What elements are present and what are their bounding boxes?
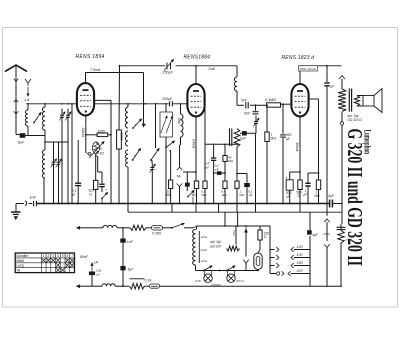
capacitor 0.1uF x213.6 <box>213 144 215 157</box>
svg-text:G 320 II und GD 320 II: G 320 II und GD 320 II <box>343 129 367 267</box>
switch S5 <box>132 159 134 161</box>
svg-text:5nF: 5nF <box>241 99 248 103</box>
wire ground bus right end <box>332 203 342 205</box>
switch S mains <box>171 227 173 229</box>
svg-text:0,2A: 0,2A <box>145 279 153 283</box>
wire L2 bottom <box>33 135 45 137</box>
fuse 0.35A <box>152 226 163 230</box>
ballast tube <box>259 240 261 250</box>
resistor 0.3MOhm <box>267 103 281 107</box>
resistor 40MOhm x225 <box>224 144 226 155</box>
transformer core line <box>198 231 200 263</box>
capacitor 500uF <box>282 104 284 134</box>
svg-text:24mA: 24mA <box>192 138 196 149</box>
svg-text:MΩ: MΩ <box>271 137 277 141</box>
field choke core bars <box>337 226 346 228</box>
wire x172 interbus <box>171 204 173 213</box>
wire vertical x111 <box>110 100 112 203</box>
wire V3 cathode <box>299 117 301 181</box>
hook terminal <box>340 122 343 125</box>
aux antenna socket Y <box>25 79 31 83</box>
resistor R screen feed <box>316 180 320 190</box>
resistor 120 Ohm <box>95 153 97 180</box>
wire x218 drop <box>218 204 220 213</box>
coil L5 <box>126 131 129 146</box>
svg-text:auf. Spl.: auf. Spl. <box>210 240 222 244</box>
svg-text:100a: 100a <box>201 235 208 239</box>
wire y144.3 <box>205 143 237 145</box>
wire antenna feeder <box>15 66 17 135</box>
switch lamp 2 <box>226 270 228 272</box>
tube V2 RENS1884 <box>187 84 204 116</box>
wire second bus y212 <box>127 204 129 213</box>
coil L6 <box>126 150 129 167</box>
wire V2 anode <box>195 66 197 84</box>
speaker cone <box>374 89 382 113</box>
wire x255 interbus <box>255 204 257 213</box>
svg-text:220a: 220a <box>201 248 208 252</box>
wire mains line 2 <box>88 285 102 287</box>
switch S6 <box>150 159 152 161</box>
wire ground bus main <box>36 203 329 205</box>
transformer core bars <box>348 89 350 112</box>
trimmer C4 <box>57 161 61 163</box>
wire riser x119.5 <box>119 66 121 73</box>
junction dot V3 bottom <box>299 111 301 113</box>
switch S1 <box>33 122 35 124</box>
svg-text:0,35A: 0,35A <box>152 231 162 235</box>
svg-text:MΩ: MΩ <box>166 193 172 197</box>
power transformer primary winding <box>196 226 198 230</box>
resistor 0.4MOhm x225 lower <box>223 181 227 189</box>
svg-text:1mA: 1mA <box>208 67 216 71</box>
svg-text:LA: LA <box>25 97 30 102</box>
wire lamp row <box>196 270 258 272</box>
wire V2 cathode down <box>195 117 197 182</box>
svg-text:5: 5 <box>100 147 102 151</box>
svg-text:150: 150 <box>297 261 303 265</box>
svg-text:MΩ: MΩ <box>228 159 234 163</box>
wire stub 308-318 y173 <box>308 172 319 174</box>
wire x255.5 lower <box>255 133 257 203</box>
wire V1 grid lead right <box>94 99 111 101</box>
resistor R 10MOhm grid <box>169 180 173 189</box>
wire transformer bottom <box>195 265 197 271</box>
svg-text:Mittel: Mittel <box>16 259 24 263</box>
wire mains bus to transformer <box>194 226 197 228</box>
wire x196 interbus <box>195 204 197 213</box>
svg-text:130: 130 <box>297 253 303 257</box>
svg-text:-7936: -7936 <box>322 232 330 236</box>
svg-text:7,5mA: 7,5mA <box>90 68 101 72</box>
wire vertical x62 lower <box>61 142 63 203</box>
wire vertical x68 lower <box>67 142 69 203</box>
svg-text:1nF: 1nF <box>127 240 134 244</box>
svg-text:36mA: 36mA <box>295 142 299 152</box>
resistor R 0.1MOhm x205 <box>204 144 206 181</box>
wire grid bus <box>26 103 169 105</box>
heater resistor zigzag <box>235 226 237 245</box>
resistor 1MOhm x237 <box>235 181 239 188</box>
wire AVC line to V3 grid <box>237 104 244 106</box>
wire x152 trimmer <box>151 174 153 177</box>
svg-text:2µF: 2µF <box>327 194 335 198</box>
plug chevron x327 upper <box>324 219 330 222</box>
wire junction x255.5 down <box>255 104 257 106</box>
capacitor 2uF top right <box>326 66 328 82</box>
resistor R 1MOhm V2 cathode <box>194 181 198 189</box>
svg-text:4: 4 <box>57 254 59 258</box>
junction dot lamps <box>219 270 221 272</box>
svg-text:220: 220 <box>296 269 303 273</box>
trimmer C1 <box>60 114 64 116</box>
svg-text:5µF: 5µF <box>128 268 135 272</box>
svg-text:RENS 1894: RENS 1894 <box>76 54 105 60</box>
resistor mains zigzag 1 <box>130 225 146 230</box>
capacitor 6uF antenna series <box>20 133 26 138</box>
svg-text:MΩ: MΩ <box>240 193 246 197</box>
voltage selector wiper arrow <box>245 230 247 241</box>
svg-text:GD 320 D: GD 320 D <box>348 118 363 122</box>
trimmer C8 in box <box>166 116 172 133</box>
resistor 1MOhm <box>266 105 268 132</box>
resistor mains zigzag 2 with bar <box>130 278 145 280</box>
capacitor 5nF shunt <box>253 111 259 113</box>
svg-text:MΩ: MΩ <box>202 193 208 197</box>
mains plug arrow 2 <box>77 285 88 287</box>
svg-text:MΩ: MΩ <box>315 194 321 198</box>
svg-text:100µF: 100µF <box>162 97 173 101</box>
svg-text:100a: 100a <box>201 259 208 263</box>
wire anode line y72.5 <box>86 72 144 74</box>
mains choke 2 <box>102 284 115 286</box>
switch position table <box>15 253 74 273</box>
svg-text:150V 16mA: 150V 16mA <box>300 67 317 71</box>
resistor 105 Ohm <box>259 226 261 230</box>
coil L7 600 <box>180 104 182 114</box>
capacitor 500uF electrolytic + <box>286 180 293 190</box>
wire y173 with black cap series <box>214 172 225 174</box>
svg-text:RENS1884: RENS1884 <box>184 55 211 61</box>
wire y173.5 to 0.1uF drop <box>237 173 247 175</box>
wire V3 anode <box>299 71 301 84</box>
boxed label 150V 16mA <box>299 66 318 71</box>
coil L8 600 anode <box>236 66 238 77</box>
plug chevron x327 lower <box>324 244 330 247</box>
svg-text:µF: µF <box>249 193 253 197</box>
svg-text:MΩ: MΩ <box>192 193 198 197</box>
trimmer C10 <box>255 114 257 117</box>
coil L4 <box>127 104 129 107</box>
svg-text:6000: 6000 <box>119 133 123 141</box>
output transformer primary <box>341 79 343 89</box>
wire x225 drop <box>224 212 226 226</box>
svg-text:GD 320: GD 320 <box>210 244 221 248</box>
svg-text:MΩ: MΩ <box>222 193 228 197</box>
trimmer C11 <box>151 163 153 174</box>
svg-text:37mm: 37mm <box>236 279 245 283</box>
wire box bottom <box>165 137 167 203</box>
tube V3 RENS1823d <box>291 84 308 116</box>
selector contact 220 pair <box>270 273 276 275</box>
junction dot V2 bottom <box>195 111 197 113</box>
switch S7 <box>165 147 167 149</box>
trimmer C 250pF in top bus <box>166 63 168 70</box>
capacitor 1nF ground series <box>33 201 35 206</box>
svg-text:1: 1 <box>43 254 45 258</box>
wire x236 interbus <box>236 204 238 213</box>
selector bus vertical x310 <box>309 236 311 287</box>
capacitor 4uF selector black <box>307 230 312 234</box>
svg-text:µF: µF <box>286 137 290 141</box>
wire L7 bottom down <box>180 137 182 145</box>
transformer secondary <box>354 96 359 107</box>
svg-text:1nF: 1nF <box>30 196 37 200</box>
potentiometer 5k with arrow <box>85 135 87 153</box>
mains choke 1 <box>88 227 103 229</box>
svg-text:5: 5 <box>62 254 64 258</box>
capacitor 0.1uF black x247 <box>244 183 250 187</box>
svg-text:120: 120 <box>297 245 303 249</box>
wire x123 drop caps <box>122 228 124 239</box>
wire V3 screen to right <box>309 98 319 100</box>
wire anode drop x143.5 with arrow <box>143 73 145 127</box>
svg-text:RENS 1823 d: RENS 1823 d <box>282 55 315 61</box>
capacitor 1uF black TA <box>186 172 188 183</box>
junction dot V1 bottom <box>85 110 87 112</box>
table X marks <box>42 258 46 262</box>
junction dots grid bus <box>27 103 29 105</box>
svg-text:7: 7 <box>71 254 73 258</box>
capacitor 100uF black <box>89 272 95 276</box>
svg-text:µF: µF <box>287 195 291 199</box>
IF choke core bars <box>229 129 231 147</box>
plug to ground <box>16 203 24 205</box>
trimmer C2 <box>66 114 70 116</box>
capacitor 1uF black plates <box>307 173 309 183</box>
variable cap C13 <box>146 160 148 163</box>
switch S8 below cap <box>186 187 188 191</box>
capacitor 5uF black mains <box>120 266 125 270</box>
wire x237.6 drop <box>237 212 239 226</box>
trimmer C3 <box>53 142 55 157</box>
svg-text:6µF: 6µF <box>18 141 25 145</box>
svg-text:µF: µF <box>97 272 101 276</box>
svg-text:zwB: zwB <box>194 279 201 283</box>
wire x300 interbus <box>299 204 301 213</box>
svg-text:2: 2 <box>48 254 50 258</box>
plug chevron top speaker <box>339 76 345 80</box>
trimmer C6 <box>151 160 153 163</box>
speaker voice coil box <box>363 96 374 107</box>
svg-text:6: 6 <box>66 254 68 258</box>
capacitor 2uF in ground bus <box>329 200 331 208</box>
capacitor 2uF black <box>242 131 247 135</box>
capacitor 1nF mains <box>120 239 125 243</box>
switch lamp 1 <box>203 270 205 272</box>
svg-text:1090: 1090 <box>98 130 106 134</box>
coil L1 antenna <box>27 104 29 110</box>
wire top bus right segment <box>299 65 342 67</box>
wire ballast bottom <box>257 270 259 271</box>
field choke zigzag <box>341 212 343 224</box>
wire V1 cathode down <box>85 116 87 135</box>
coil L2 antenna LW <box>44 104 46 107</box>
feeder connector 1 <box>14 79 18 82</box>
wire x170.6 down <box>170 150 172 180</box>
svg-text:Lang: Lang <box>16 264 24 268</box>
resistor 1090 cathode <box>86 134 97 136</box>
svg-text:Fern: Fern <box>232 230 236 237</box>
capacitor 0.1uF <box>71 104 73 183</box>
wire tap y142 <box>45 141 68 143</box>
svg-text:LA: LA <box>94 261 99 265</box>
feeder connector 2 pair <box>14 100 18 103</box>
svg-text:Schalter: Schalter <box>16 254 29 258</box>
capacitor 5nF series <box>245 102 247 108</box>
wire stub 289-300 <box>290 171 300 173</box>
antenna A1 <box>5 65 27 72</box>
switch S3 <box>132 127 134 129</box>
svg-text:80nF: 80nF <box>80 255 89 259</box>
lamp 1 <box>204 274 212 282</box>
wire HT top bus left segment <box>120 65 166 67</box>
TA pickup jack <box>177 167 183 170</box>
bandfilter box <box>160 112 172 137</box>
resistor R V3 cathode <box>298 180 302 190</box>
selector taps right <box>291 247 294 252</box>
tube V1 RENS1894 <box>77 83 94 115</box>
wire x166 box top <box>165 104 167 112</box>
svg-text:5nF: 5nF <box>244 112 251 116</box>
wire V2 anode right side <box>203 99 205 101</box>
svg-text:24mA: 24mA <box>81 127 85 138</box>
svg-text:600: 600 <box>177 118 181 124</box>
svg-text:0,3MΩ: 0,3MΩ <box>265 98 276 102</box>
IF choke winding zigzag <box>234 129 240 148</box>
selector contacts left <box>270 249 275 251</box>
fuse 0.2A <box>145 285 150 287</box>
svg-text:kΩ: kΩ <box>100 152 105 156</box>
mains plug arrow 1 <box>77 227 88 229</box>
coil L3 oscillator <box>42 150 45 178</box>
wire x155.5 from grid bus <box>155 104 157 148</box>
selector wiper plug <box>243 260 249 263</box>
wire V1 anode to top <box>85 73 87 84</box>
arrow to LA <box>27 87 29 96</box>
resistor 6000 screen feed <box>118 66 121 130</box>
wire mains bus upper to selector corner <box>269 226 271 274</box>
ground symbol <box>15 204 17 212</box>
svg-text:-7936: -7936 <box>345 238 353 242</box>
svg-text:TA: TA <box>176 175 181 179</box>
svg-text:250µF: 250µF <box>162 71 174 75</box>
lamp 2 <box>227 274 235 282</box>
wire y172 cathode link <box>183 171 196 173</box>
svg-text:3: 3 <box>52 254 54 258</box>
capacitor 100uF grid series <box>169 101 171 106</box>
junction dots ground bus <box>43 203 45 205</box>
trimmer C7 in box <box>161 116 167 133</box>
capacitor + switch branch x102 <box>96 155 98 157</box>
